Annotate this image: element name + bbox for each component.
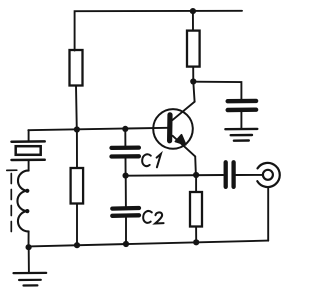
resistor R2 <box>187 31 200 67</box>
resistor R4 <box>71 168 84 204</box>
ground right <box>225 129 257 141</box>
ground left <box>14 273 47 286</box>
capacitor C2 <box>112 208 139 216</box>
junction dot base / C1 <box>122 126 128 132</box>
junction dot bottom-left node <box>26 244 32 250</box>
wire R2 bottom lead <box>192 67 194 82</box>
wire C1 bottom lead <box>125 159 127 176</box>
wire R3 bottom lead <box>195 227 197 243</box>
junction dot collector node <box>190 78 196 84</box>
junction dot top rail / R2 <box>190 8 196 14</box>
capacitor C4 <box>228 101 256 110</box>
wire collector to C4 <box>194 82 242 100</box>
wire top supply rail <box>75 11 242 51</box>
wire base rail <box>28 128 167 130</box>
wire C1 top lead <box>124 129 126 147</box>
wire R3 top lead <box>195 175 197 192</box>
wire jack to bottom rail <box>267 187 269 241</box>
capacitor C3 <box>226 162 234 187</box>
resistor R3 <box>190 192 202 227</box>
resistor R1 <box>70 50 83 86</box>
wire R4 bottom lead <box>76 204 78 246</box>
wire crystal to coil <box>28 160 30 171</box>
wire C2 bottom lead <box>125 218 127 244</box>
transistor Q1 <box>153 102 195 157</box>
inductor L1 <box>17 171 29 232</box>
wire C2 top lead <box>125 176 127 207</box>
wire emitter rail <box>126 174 224 177</box>
label C1 <box>142 154 161 167</box>
tuning core dashed line <box>7 170 17 233</box>
junction dot bottom / R3 <box>193 239 199 245</box>
wire coil bottom lead <box>28 231 30 249</box>
junction dot bottom / R4 <box>74 242 80 248</box>
junction dot emitter / C1 C2 <box>123 173 129 179</box>
wire bottom rail <box>29 241 269 247</box>
junction dot bottom / C2 <box>123 241 129 247</box>
capacitor C1 <box>112 148 139 157</box>
junction dot base / R1-R4 <box>74 126 80 132</box>
wire R4 top lead <box>76 130 78 169</box>
wire emitter lead vertical <box>194 156 197 175</box>
wire to left ground <box>28 249 30 273</box>
label C2 <box>143 211 163 224</box>
junction dot emitter node <box>193 172 199 178</box>
wire crystal top lead <box>28 130 30 141</box>
crystal X1 <box>12 141 45 160</box>
output jack J1 <box>257 163 279 187</box>
wire R1 bottom lead <box>75 86 78 130</box>
wire R2 top lead <box>192 11 194 30</box>
wire collector lead vertical <box>193 82 194 102</box>
wire C3 to jack <box>236 174 263 176</box>
wire C4 to right ground <box>240 112 242 129</box>
